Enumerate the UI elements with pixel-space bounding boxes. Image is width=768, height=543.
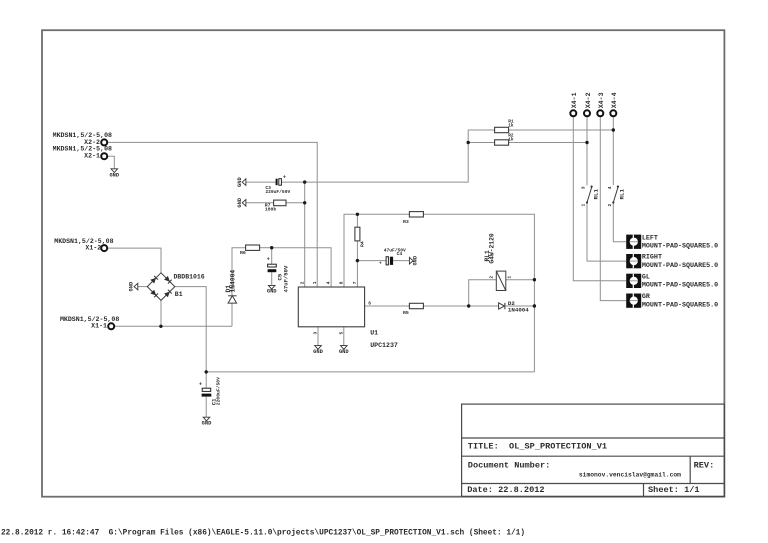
svg-text:1N4004: 1N4004	[230, 270, 237, 293]
wire gnd to R7	[246, 202, 274, 204]
svg-text:4: 4	[607, 186, 613, 189]
svg-text:+: +	[283, 175, 286, 181]
node R2/X4-2	[585, 141, 588, 144]
resistor R7	[265, 200, 286, 212]
svg-text:2: 2	[607, 204, 613, 207]
wire relay branch	[469, 280, 497, 306]
wire C1 bottom lead	[205, 397, 207, 417]
connector X4-2	[584, 92, 592, 116]
wire X1-2 to bridge	[108, 248, 162, 273]
wire U1 pin 6 to R5	[365, 305, 410, 307]
wire bridge bottom	[160, 300, 162, 326]
svg-text:1N4004: 1N4004	[508, 307, 529, 314]
ground below C5	[267, 285, 277, 294]
svg-text:Document Number:: Document Number:	[468, 460, 551, 470]
connector X4-4	[610, 92, 618, 116]
svg-text:+: +	[379, 262, 382, 267]
wire C3 to riser	[281, 130, 468, 182]
wire D2 to riser	[506, 305, 535, 307]
mount pad GL	[626, 273, 718, 289]
svg-text:X4-2: X4-2	[585, 92, 592, 108]
node R1/X4-4	[612, 128, 615, 131]
svg-text:MOUNT-PAD-SQUARE5.0: MOUNT-PAD-SQUARE5.0	[642, 243, 718, 251]
resistor R3	[403, 212, 423, 225]
svg-text:GL: GL	[642, 273, 650, 281]
mount pad GR	[626, 293, 718, 309]
svg-text:MKDSN1,5/2-5,08: MKDSN1,5/2-5,08	[54, 238, 113, 245]
svg-text:1k: 1k	[508, 123, 514, 128]
wire X4-2 contact to RIGHT pad	[587, 203, 626, 262]
svg-text:RL1: RL1	[592, 189, 599, 200]
wire C5 bottom lead	[271, 272, 273, 285]
svg-text:R6: R6	[240, 250, 246, 256]
bridge diode bottom-right	[164, 292, 170, 298]
svg-text:GR: GR	[642, 293, 650, 301]
svg-text:G4W-2120: G4W-2120	[489, 233, 496, 263]
wire C1 top lead	[205, 372, 207, 388]
svg-text:GND: GND	[339, 349, 349, 355]
svg-text:R4: R4	[360, 241, 366, 247]
svg-text:TITLE: OL_SP_PROTECTION_V1: TITLE: OL_SP_PROTECTION_V1	[468, 442, 607, 452]
relay contact RL1 (3-1)	[581, 186, 600, 207]
ground below X2-1	[109, 169, 119, 179]
svg-text:DBDB1016: DBDB1016	[174, 273, 205, 280]
wire U1 pin 5 to ground	[343, 327, 345, 346]
resistor R2	[495, 134, 514, 146]
wire R1 to X4-4 column	[509, 129, 614, 131]
svg-text:U1: U1	[370, 330, 378, 337]
diode D2	[499, 300, 530, 314]
svg-text:simonov.vencislav@gmail.com: simonov.vencislav@gmail.com	[579, 472, 681, 479]
svg-text:4: 4	[326, 281, 332, 284]
svg-text:GND: GND	[237, 176, 243, 186]
svg-text:X1-2: X1-2	[85, 245, 101, 252]
wire node column to U1 pin 2	[304, 182, 306, 287]
svg-text:MKDSN1,5/2-5,08: MKDSN1,5/2-5,08	[60, 316, 119, 323]
ground left of R7	[237, 197, 246, 207]
node C3	[303, 180, 306, 183]
resistor R6	[240, 245, 260, 256]
svg-text:Date: 22.8.2012: Date: 22.8.2012	[467, 485, 544, 495]
svg-text:47uF/50V: 47uF/50V	[282, 265, 289, 292]
wire R4 to U1 pin 7	[356, 241, 358, 287]
svg-text:MOUNT-PAD-SQUARE5.0: MOUNT-PAD-SQUARE5.0	[642, 302, 718, 310]
resistor R4	[355, 227, 366, 247]
capacitor C5	[267, 257, 290, 293]
svg-text:GND: GND	[237, 197, 243, 207]
svg-text:X4-3: X4-3	[598, 92, 605, 108]
wire bottom rail	[206, 371, 534, 373]
connector X1-2	[54, 238, 113, 252]
svg-text:1: 1	[312, 281, 318, 284]
ground left of bridge	[129, 281, 138, 291]
svg-text:GND: GND	[313, 349, 323, 355]
svg-text:RL1: RL1	[619, 189, 626, 200]
wire D1 column	[231, 303, 233, 326]
svg-text:GND: GND	[267, 289, 277, 295]
svg-text:MKDSN1,5/2-5,08: MKDSN1,5/2-5,08	[53, 146, 112, 153]
wire to R1	[468, 129, 494, 131]
svg-text:2200uF/50V: 2200uF/50V	[216, 377, 222, 405]
connector X1-1	[60, 316, 119, 330]
svg-text:8: 8	[339, 281, 345, 284]
svg-text:5: 5	[338, 332, 344, 335]
capacitor C4	[379, 248, 406, 267]
mount pad LEFT	[626, 234, 718, 250]
svg-text:22.8.2012 г. 16:42:47 G:\Prog: 22.8.2012 г. 16:42:47 G:\Program Files (…	[1, 530, 525, 538]
node riser/R2	[467, 141, 470, 144]
wire bridge right to bottom rail	[175, 287, 206, 372]
svg-text:1: 1	[506, 276, 512, 279]
ground below U1 pin 5	[339, 346, 349, 356]
bridge diode top-right	[164, 276, 170, 282]
diode D1	[225, 270, 237, 303]
svg-text:+: +	[267, 257, 270, 263]
svg-text:100k: 100k	[265, 206, 277, 212]
wire X4-4 column upper	[612, 117, 614, 186]
connector X2-2	[53, 132, 112, 146]
title block text	[467, 442, 714, 495]
svg-text:X4-4: X4-4	[611, 92, 618, 108]
wire node to U1 pin 4	[272, 248, 331, 287]
wire R3 to right riser	[423, 214, 534, 372]
svg-text:MOUNT-PAD-SQUARE5.0: MOUNT-PAD-SQUARE5.0	[642, 282, 718, 290]
ground below C1	[202, 417, 212, 426]
wire X4-4 contact to LEFT pad	[613, 203, 626, 242]
wire X4-2 column upper	[586, 117, 588, 186]
node bottom rail / C1	[205, 370, 208, 373]
svg-text:B1: B1	[175, 291, 183, 298]
svg-text:7: 7	[352, 281, 358, 284]
wire C4 to ground	[393, 260, 409, 262]
node X1-1/bridge	[159, 325, 162, 328]
wire gnd to C3	[246, 181, 276, 183]
svg-text:R3: R3	[403, 219, 409, 225]
svg-text:X1-1: X1-1	[91, 323, 107, 330]
svg-text:GND: GND	[413, 255, 419, 265]
node R6/C5	[270, 246, 273, 249]
ground right of C4	[409, 255, 418, 265]
relay contact RL1 (4-2)	[607, 186, 626, 207]
wire node to C4	[357, 260, 386, 262]
svg-text:MKDSN1,5/2-5,08: MKDSN1,5/2-5,08	[53, 132, 112, 139]
relay coil RL1	[484, 233, 512, 290]
svg-text:47uF/50V: 47uF/50V	[384, 248, 406, 254]
wire U1 pin 8 to supply rail	[344, 214, 409, 287]
wire R7 to node	[286, 202, 305, 204]
svg-text:REV:: REV:	[694, 460, 715, 470]
svg-text:6: 6	[368, 301, 371, 307]
node pin7/C4	[356, 259, 359, 262]
wire D1 to R6	[232, 248, 246, 296]
svg-text:X2-1: X2-1	[84, 153, 100, 160]
connector X4-3	[597, 92, 605, 116]
IC U1	[298, 281, 398, 349]
svg-text:X4-1: X4-1	[571, 92, 578, 108]
svg-text:2: 2	[299, 281, 305, 284]
bridge diode bottom-left	[150, 290, 156, 296]
resistor R5	[403, 303, 423, 316]
wire relay coil right pin	[506, 279, 535, 281]
svg-text:LEFT: LEFT	[642, 234, 658, 242]
wire R2 to X4-2 column	[509, 142, 587, 144]
wire R5 to D2	[423, 305, 498, 307]
bridge rectifier B1	[147, 273, 175, 301]
node R7	[303, 201, 306, 204]
svg-text:+: +	[199, 382, 202, 388]
wire bridge left to ground	[138, 286, 148, 288]
node R4 top	[356, 213, 359, 216]
bridge diode top-left	[150, 278, 156, 284]
svg-text:UPC1237: UPC1237	[370, 342, 398, 349]
node D2/relay	[467, 304, 470, 307]
wire C5 top lead	[271, 248, 273, 265]
svg-text:GND: GND	[129, 281, 135, 291]
wire X2-1 to ground	[108, 156, 115, 168]
svg-text:1: 1	[581, 204, 587, 207]
wire X4-3 column to GR pad	[600, 117, 626, 301]
wire R6 to node	[260, 247, 272, 249]
svg-text:220uF/50V: 220uF/50V	[265, 189, 290, 195]
svg-text:RIGHT: RIGHT	[642, 254, 662, 262]
wire U1 pin 3 to ground	[317, 327, 319, 346]
svg-text:R5: R5	[403, 310, 409, 316]
connector X4-1	[570, 92, 578, 116]
wire to R2	[468, 142, 494, 144]
wire X4-1 column to GL pad	[573, 117, 626, 281]
svg-text:GND: GND	[109, 172, 119, 178]
svg-text:GND: GND	[202, 421, 212, 427]
svg-text:Sheet: 1/1: Sheet: 1/1	[648, 485, 700, 495]
svg-text:C4: C4	[397, 251, 403, 257]
svg-text:1k: 1k	[508, 137, 514, 142]
resistor R1	[495, 120, 514, 133]
svg-text:3: 3	[581, 186, 587, 189]
node D2 cathode	[533, 304, 536, 307]
svg-text:2: 2	[489, 276, 495, 279]
node coil right	[533, 278, 536, 281]
wire X1-1 row	[115, 325, 232, 327]
wire X2-2 to U1 pin 1	[108, 142, 318, 287]
svg-text:MOUNT-PAD-SQUARE5.0: MOUNT-PAD-SQUARE5.0	[642, 262, 718, 270]
svg-text:3: 3	[313, 332, 319, 335]
capacitor C3	[265, 175, 290, 196]
capacitor C1	[199, 377, 222, 405]
wire R4 top lead	[356, 214, 358, 227]
title block	[462, 404, 725, 496]
connector X2-1	[53, 146, 112, 160]
mount pad RIGHT	[626, 254, 718, 270]
ground below U1 pin 3	[313, 346, 323, 356]
ground left of C3	[237, 176, 246, 186]
